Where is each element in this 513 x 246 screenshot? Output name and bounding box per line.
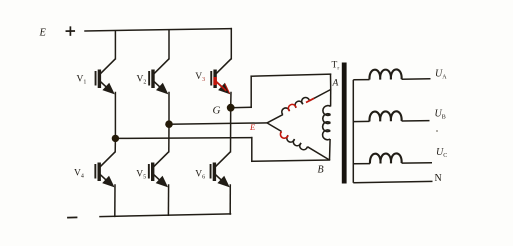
svg-text:V1: V1 [77,75,87,86]
svg-text:G: G [213,105,221,117]
svg-text:N: N [435,173,442,184]
svg-text:UB: UB [435,109,446,121]
svg-text:UC: UC [436,147,447,159]
svg-text:V6: V6 [195,170,205,181]
svg-text:E: E [249,122,256,132]
svg-text:V4: V4 [74,169,84,180]
svg-text:A: A [332,79,339,89]
svg-text:V3: V3 [195,72,205,83]
svg-text:V5: V5 [136,170,146,181]
svg-text:B: B [318,165,324,176]
svg-text:E: E [39,27,47,38]
svg-text:V2: V2 [137,75,147,86]
svg-text:Tr: Tr [332,60,340,71]
svg-text:UA: UA [435,69,447,81]
